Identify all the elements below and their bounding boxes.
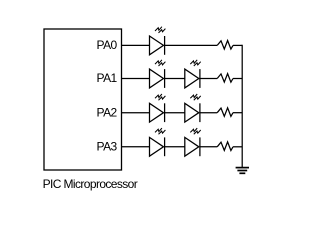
wire PA3 pin to LED anode (row 4): [122, 146, 150, 148]
wire D5 cathode to resistor R3 (row 3): [200, 112, 217, 114]
LED D4: [150, 94, 166, 122]
resistor R3: [217, 108, 233, 117]
wire PA1 pin to LED anode (row 2): [122, 78, 150, 80]
wire D3 cathode to resistor R2 (row 2): [200, 78, 217, 80]
wire resistor R2 to ground bus (row 2): [233, 78, 242, 80]
resistor R4: [217, 142, 233, 151]
LED D6: [150, 128, 166, 156]
svg-text:PA1: PA1: [97, 71, 118, 85]
wire D1 cathode to resistor R1 (row 1): [165, 44, 218, 46]
ground: [236, 168, 249, 174]
LED D3: [185, 60, 201, 88]
LED D2: [150, 60, 166, 88]
wire resistor R1 to ground bus (row 1): [233, 44, 242, 46]
wire D7 cathode to resistor R4 (row 4): [200, 146, 217, 148]
svg-text:PIC Microprocessor: PIC Microprocessor: [43, 177, 138, 191]
LED D7: [185, 128, 201, 156]
wire D2 cathode to D3 anode (row 2): [165, 78, 185, 80]
wire ground bus (vertical): [241, 45, 243, 168]
PIC microprocessor box U1: [44, 29, 122, 170]
wire resistor R3 to ground bus (row 3): [233, 112, 242, 114]
LED D1: [150, 27, 166, 55]
wire D4 cathode to D5 anode (row 3): [165, 112, 185, 114]
svg-text:PA2: PA2: [97, 105, 118, 119]
resistor R1: [217, 41, 233, 50]
wire PA2 pin to LED anode (row 3): [122, 112, 150, 114]
LED D5: [185, 94, 201, 122]
svg-text:PA0: PA0: [97, 38, 118, 52]
wire PA0 pin to LED anode (row 1): [122, 44, 150, 46]
resistor R2: [217, 74, 233, 83]
svg-text:PA3: PA3: [97, 139, 118, 153]
wire resistor R4 to ground bus (row 4): [233, 146, 242, 148]
wire D6 cathode to D7 anode (row 4): [165, 146, 185, 148]
